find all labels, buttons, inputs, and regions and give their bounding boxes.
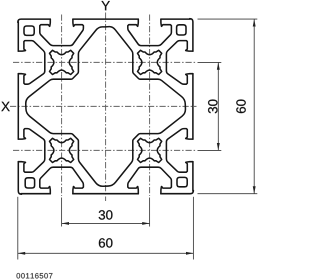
- profile outer face left side: [18, 22, 21, 194]
- extension line right outer (bottom): [192, 197, 194, 260]
- profile outer face bottom side: [21, 191, 193, 194]
- T-slot cavity top side second: [128, 19, 172, 45]
- T-slot cavity right side first: [166, 41, 193, 85]
- part number: [17, 273, 53, 278]
- corner bore hole left: [25, 178, 34, 188]
- T-slot cavity top side first: [40, 19, 84, 45]
- extension line top outer (right): [198, 18, 258, 20]
- T-slot cavity right side second: [166, 129, 193, 173]
- arrowhead 30 right top: [217, 62, 220, 69]
- screw-boss star hole left: [49, 138, 73, 162]
- T-slot cavity bottom side first: [128, 167, 172, 193]
- arrowhead 30 right bottom: [217, 143, 220, 150]
- dimension text 30 bottom: [99, 210, 113, 219]
- dimension text 60 right: [236, 100, 245, 114]
- dimension text 30 right: [208, 100, 217, 114]
- dimension line 60 bottom: [18, 252, 194, 254]
- axis X centerline: [10, 105, 197, 107]
- extension line slot axis bottom (right): [198, 149, 222, 151]
- screw-boss star hole top: [50, 50, 74, 74]
- arrowhead 60 right bottom: [253, 186, 256, 193]
- corner bore hole right: [177, 25, 186, 35]
- T-slot cavity left side first: [18, 129, 44, 173]
- label Y: [101, 1, 109, 10]
- dimension line 60 right: [253, 19, 255, 194]
- central cavity: [26, 27, 186, 187]
- slot axis horizontal bottom: [13, 149, 196, 151]
- slot axis horizontal top: [13, 61, 196, 63]
- dimension line 30 bottom: [62, 222, 150, 224]
- slot axis vertical left: [61, 15, 63, 197]
- extension line slot axis right (bottom): [149, 198, 151, 227]
- arrowhead 30 bottom left: [62, 222, 69, 225]
- T-slot cavity bottom side second: [40, 167, 84, 193]
- T-slot cavity left side second: [18, 41, 44, 85]
- extension line slot axis left (bottom): [61, 198, 63, 227]
- arrowhead 30 bottom right: [142, 222, 149, 225]
- axis Y centerline: [105, 13, 107, 202]
- corner bore hole bottom: [177, 177, 187, 186]
- extension line bottom outer (right): [198, 193, 258, 195]
- profile outer face right side: [190, 19, 193, 191]
- screw-boss star hole bottom: [138, 138, 162, 162]
- dimension line 30 right: [217, 62, 219, 150]
- screw-boss star hole right: [138, 50, 162, 74]
- profile outer face top side: [18, 19, 190, 22]
- slot axis vertical right: [149, 15, 151, 197]
- arrowhead 60 right top: [253, 19, 256, 26]
- dimension text 60 bottom: [99, 238, 113, 247]
- extension line slot axis top (right): [198, 61, 222, 63]
- corner bore hole top: [24, 26, 34, 35]
- extension line left outer (bottom): [17, 197, 19, 260]
- label X: [1, 102, 9, 111]
- arrowhead 60 bottom right: [186, 252, 193, 255]
- arrowhead 60 bottom left: [18, 252, 25, 255]
